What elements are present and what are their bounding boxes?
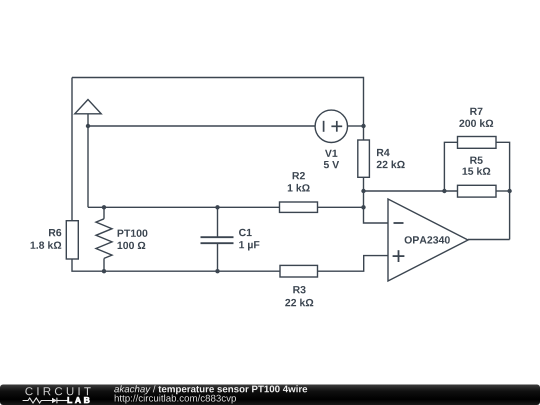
wire R5 right lead — [496, 190, 510, 192]
junction PT100 bottom — [102, 269, 106, 273]
footer url line — [115, 395, 236, 404]
wire R4 to inverting input — [364, 177, 389, 223]
op-amp U1 OPA2340 — [388, 199, 468, 281]
resistor R2 — [280, 202, 318, 212]
wire R3 to non-inverting input — [318, 256, 389, 272]
resistor R7 — [458, 137, 497, 149]
voltage source V1 — [315, 110, 347, 142]
wire top rail — [72, 78, 364, 127]
label R3 — [293, 286, 305, 293]
label R7 value 200 kOhm — [459, 119, 493, 127]
wire ground node to V1 — [88, 125, 315, 127]
wire R7 left leg — [444, 142, 457, 191]
label R4 value 22 kOhm — [377, 161, 405, 169]
label PT100 value 100 Ohm — [118, 242, 146, 249]
CircuitLab logo resistor squiggle — [23, 398, 68, 404]
label R6 — [49, 229, 61, 236]
junction C1 top — [215, 205, 219, 209]
label R2 — [293, 172, 305, 179]
junction C1 bottom — [215, 269, 219, 273]
CircuitLab logo LAB — [68, 397, 90, 403]
wire feedback rail — [364, 190, 458, 192]
junction output node — [507, 189, 511, 193]
footer title line — [114, 385, 307, 394]
junction ground node — [86, 124, 90, 128]
label PT100 — [118, 230, 148, 237]
resistor R4 — [358, 140, 370, 177]
CircuitLab logo diode — [52, 398, 57, 404]
label R4 — [377, 149, 390, 156]
label R5 value 15 kOhm — [463, 167, 491, 175]
CircuitLab logo wordmark — [25, 387, 90, 395]
wire R2 to node — [318, 206, 364, 208]
wire node down to R4 — [363, 126, 365, 140]
label V1 — [325, 150, 337, 157]
wire V1 to node — [348, 125, 364, 127]
junction R4 feedback node — [361, 189, 365, 193]
footer bar — [0, 385, 540, 405]
junction R2 node — [361, 205, 365, 209]
label V1 value 5 V — [324, 161, 339, 168]
wire bottom rail — [72, 259, 280, 271]
junction V1 node — [361, 124, 365, 128]
wire middle rail — [88, 206, 280, 208]
resistor R6 — [66, 221, 78, 259]
resistor R3 — [280, 265, 318, 277]
wire left branch down — [87, 126, 89, 207]
resistor R5 — [458, 185, 497, 197]
resistor PT100 — [96, 207, 112, 271]
label R7 — [470, 108, 482, 115]
wire R7 right leg — [496, 142, 510, 239]
ground — [75, 100, 101, 127]
label op-amp OPA2340 — [405, 236, 450, 243]
wire left rail — [71, 78, 73, 221]
label R2 value 1 kOhm — [288, 184, 310, 192]
label C1 value 1 uF — [239, 241, 259, 250]
label R6 value 1.8 kOhm — [31, 241, 62, 249]
capacitor C1 — [201, 207, 234, 271]
label C1 — [239, 229, 252, 236]
junction PT100 top — [102, 205, 106, 209]
label R5 — [470, 157, 482, 164]
junction R7 left node — [442, 189, 446, 193]
label R3 value 22 kOhm — [285, 299, 313, 307]
wire op-amp output — [468, 239, 510, 241]
